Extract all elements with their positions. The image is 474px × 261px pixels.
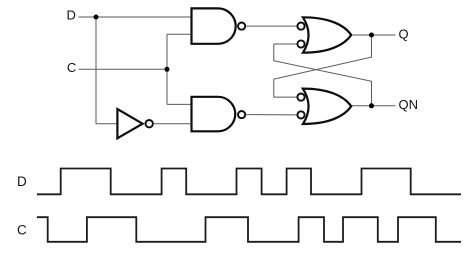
svg-text:C: C — [67, 60, 76, 75]
svg-text:D: D — [17, 174, 27, 189]
svg-text:Q: Q — [399, 26, 409, 41]
svg-text:D: D — [67, 8, 76, 23]
svg-text:C: C — [17, 223, 27, 238]
svg-text:QN: QN — [399, 97, 419, 112]
